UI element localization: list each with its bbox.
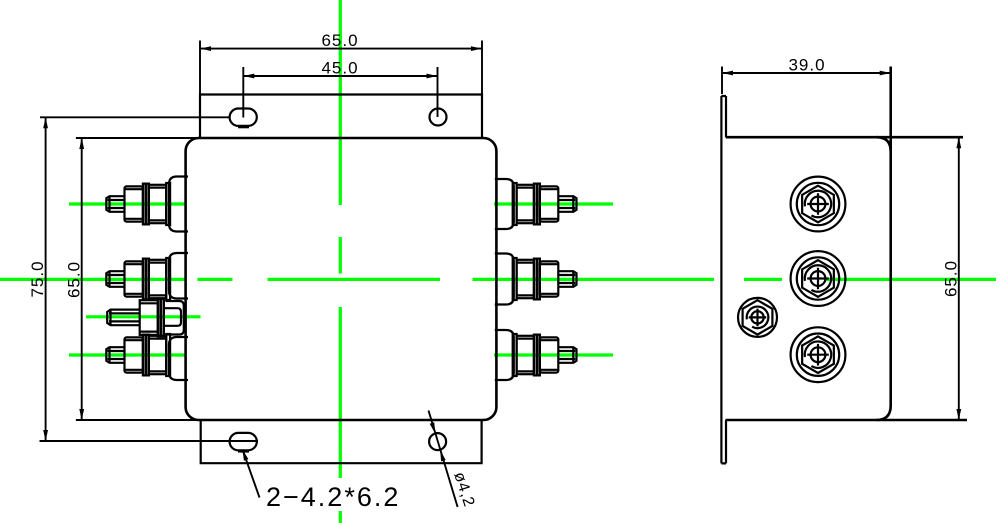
leader and label diameter 4.2 [429,411,478,510]
terminal stud row2 right [495,254,577,305]
dimension 65.0 side right [942,137,962,420]
terminal stud row2 left [106,253,188,300]
centerline: main horizontal axis through both views [0,278,996,281]
leader and label 2-4.2*6.2 [243,450,401,512]
svg-text:75.0: 75.0 [28,260,47,297]
svg-text:65.0: 65.0 [65,261,84,298]
centerline: vertical axis of front view [339,0,342,523]
svg-text:65.0: 65.0 [942,260,961,297]
hole bottom-right [429,433,446,450]
dimension 45.0 top [243,59,437,118]
terminal stud row4 right [495,330,577,380]
dimension 65.0 left [65,138,201,420]
svg-text:2−4.2*6.2: 2−4.2*6.2 [266,482,400,512]
terminal stud row1 right [495,179,577,229]
filter body (front view) [186,138,497,420]
svg-text:ø4,2: ø4,2 [450,470,477,510]
svg-text:65.0: 65.0 [321,31,358,50]
mounting flange (side view, edge-on) [721,96,726,463]
dimension 39.0 side [722,56,891,95]
slot hole bottom-left (4.2x6.2) [230,433,257,450]
terminal circle row2 (side view) [791,251,846,306]
svg-text:39.0: 39.0 [788,56,825,75]
centerline: terminal row 4 left [69,353,186,356]
terminal stud row4 left [106,334,188,380]
filter body (side view) [726,67,968,421]
dimension 75.0 left [28,117,258,441]
hole top-right [430,109,447,126]
mounting flange (front view) [200,95,482,464]
terminal circle row1 (side view) [791,177,846,232]
centerline: terminal row 1 left [69,202,186,205]
svg-text:45.0: 45.0 [321,59,358,78]
terminal circle row4 (side view) [791,327,846,382]
centerline: terminal row 1 right [494,202,613,205]
ground terminal circle (side view) [738,298,777,337]
centerline: terminal row 4 right [494,353,613,356]
ground terminal stud (row3 left) [107,299,184,336]
centerline: ground terminal row left [86,315,201,318]
dimension 65.0 top [200,31,482,94]
terminal stud row1 left [106,177,188,232]
slot hole top-left (4.2x6.2) [230,109,257,126]
